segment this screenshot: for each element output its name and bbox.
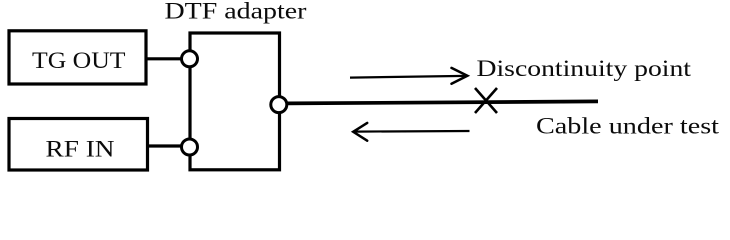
svg-text:Discontinuity point: Discontinuity point xyxy=(477,56,692,82)
svg-text:DTF adapter: DTF adapter xyxy=(165,0,307,25)
forward signal arrow xyxy=(350,68,467,84)
svg-text:Cable under test: Cable under test xyxy=(536,114,720,140)
DTF adapter body U1 xyxy=(190,33,280,170)
reflected signal arrow xyxy=(353,123,469,141)
svg-text:RF IN: RF IN xyxy=(46,137,115,163)
svg-text:TG OUT: TG OUT xyxy=(32,48,125,74)
connector port 1 (to TG OUT) xyxy=(182,51,198,67)
instrument port box TG OUT xyxy=(9,31,146,84)
discontinuity point marker X xyxy=(475,88,497,113)
wire RF IN to adapter port 2 xyxy=(147,144,183,147)
wire cable under test xyxy=(287,101,598,103)
connector port 2 (to RF IN) xyxy=(182,139,198,155)
connector port 3 (cable side) xyxy=(271,97,287,113)
wire TG OUT to adapter port 1 xyxy=(146,57,183,60)
instrument port box RF IN xyxy=(9,119,148,171)
